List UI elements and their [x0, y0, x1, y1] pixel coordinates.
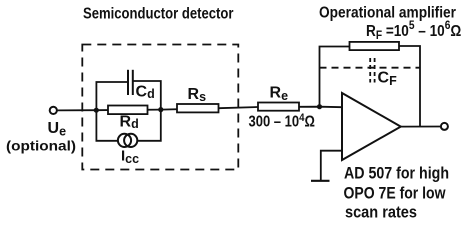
- svg-text:Re: Re: [270, 85, 289, 104]
- node: summing junction: [317, 104, 322, 109]
- wire: bottom branch left: [96, 110, 118, 141]
- svg-text:RF =105 – 106Ω: RF =105 – 106Ω: [366, 19, 461, 42]
- wire: input to left node: [57, 109, 96, 111]
- wire: cap to right vertical: [133, 81, 161, 110]
- svg-text:Semiconductor detector: Semiconductor detector: [83, 5, 234, 22]
- svg-text:Ue: Ue: [48, 120, 67, 139]
- svg-text:OPO 7E for low: OPO 7E for low: [344, 183, 447, 202]
- resistor Re: [258, 103, 299, 111]
- resistor Rs: [177, 104, 219, 112]
- detector dashed box: [82, 45, 238, 170]
- current source Icc: [118, 134, 131, 147]
- value label 300 - 10^4 ohm: [249, 111, 315, 131]
- svg-text:Icc: Icc: [121, 148, 139, 167]
- output terminal: [441, 123, 448, 130]
- svg-text:Rd: Rd: [120, 114, 139, 132]
- svg-text:(optional): (optional): [6, 138, 76, 154]
- wire: dashed CF branch: [320, 67, 421, 69]
- resistor Rd: [108, 106, 148, 115]
- input terminal Ue: [50, 107, 57, 114]
- svg-text:Rs: Rs: [188, 86, 207, 104]
- wire: main line through detector: [96, 107, 342, 111]
- svg-text:Operational amplifier: Operational amplifier: [319, 4, 456, 21]
- wire: feedback left vertical: [320, 47, 350, 107]
- resistor RF: [350, 42, 400, 50]
- wire: output: [401, 126, 441, 128]
- svg-text:300 – 104Ω: 300 – 104Ω: [249, 111, 315, 131]
- capacitor Cd: [127, 70, 129, 95]
- svg-text:Cd: Cd: [136, 84, 155, 102]
- svg-text:CF: CF: [378, 70, 398, 89]
- wire: parallel branch left vertical: [96, 82, 128, 110]
- svg-text:AD 507 for high: AD 507 for high: [344, 164, 449, 183]
- wire: feedback top right: [399, 46, 420, 127]
- ground: [311, 180, 330, 182]
- capacitor CF (dashed plates): [369, 58, 371, 83]
- wire: bottom branch right: [137, 110, 161, 141]
- wire: non-inverting input to ground: [321, 151, 342, 180]
- op-amp U1: [342, 93, 401, 160]
- value label RF = 10^5 - 10^6 ohm: [366, 19, 461, 42]
- node: right junction: [158, 107, 163, 112]
- svg-text:scan rates: scan rates: [345, 203, 417, 222]
- node: left junction: [94, 108, 99, 113]
